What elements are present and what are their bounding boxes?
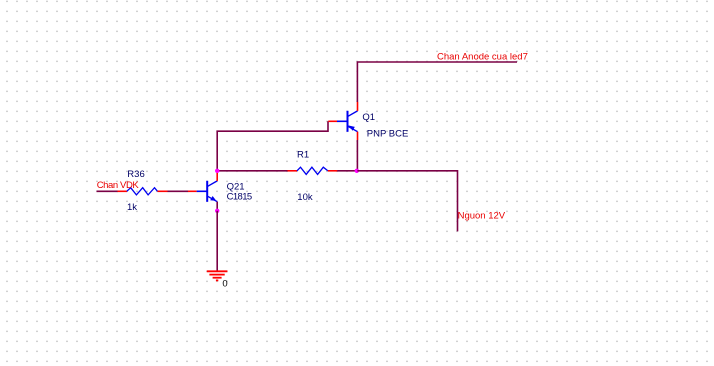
svg-text:Q1: Q1 (362, 112, 375, 123)
junction at emitter / R1 / supply (355, 169, 359, 173)
wire R1 to emitter junction (337, 170, 357, 172)
svg-text:C1815: C1815 (227, 192, 252, 203)
svg-text:10k: 10k (297, 192, 313, 203)
transistor Q21 NPN (188, 171, 217, 211)
svg-text:Chan Anode cua led7: Chan Anode cua led7 (437, 52, 528, 63)
wire Q1 emitter down to junction (356, 140, 358, 171)
svg-text:Chan VDK: Chan VDK (97, 180, 140, 191)
svg-text:R1: R1 (297, 149, 309, 160)
wire Q21 emitter to ground (216, 211, 218, 271)
wire Q1 collector up and right (357, 62, 517, 102)
wire junction to supply drop (357, 171, 457, 232)
junction at Q21 collector (215, 169, 219, 173)
wire net VDK to R36 (97, 190, 118, 192)
junction at Q21 emitter (215, 209, 219, 213)
wire R36 to Q21 base (168, 190, 189, 192)
resistor R36 (118, 188, 168, 195)
wire Q21 collector to R1 (217, 170, 288, 172)
svg-text:PNP BCE: PNP BCE (367, 128, 409, 139)
ground 0 (207, 271, 228, 280)
resistor R1 (288, 167, 338, 174)
svg-text:R36: R36 (127, 169, 144, 180)
wire Q21 collector up and over to Q1 base (217, 121, 328, 171)
svg-text:Nguon 12V: Nguon 12V (458, 211, 506, 222)
transistor Q1 PNP (328, 102, 357, 140)
svg-text:0: 0 (222, 279, 227, 290)
svg-text:1k: 1k (127, 202, 137, 213)
